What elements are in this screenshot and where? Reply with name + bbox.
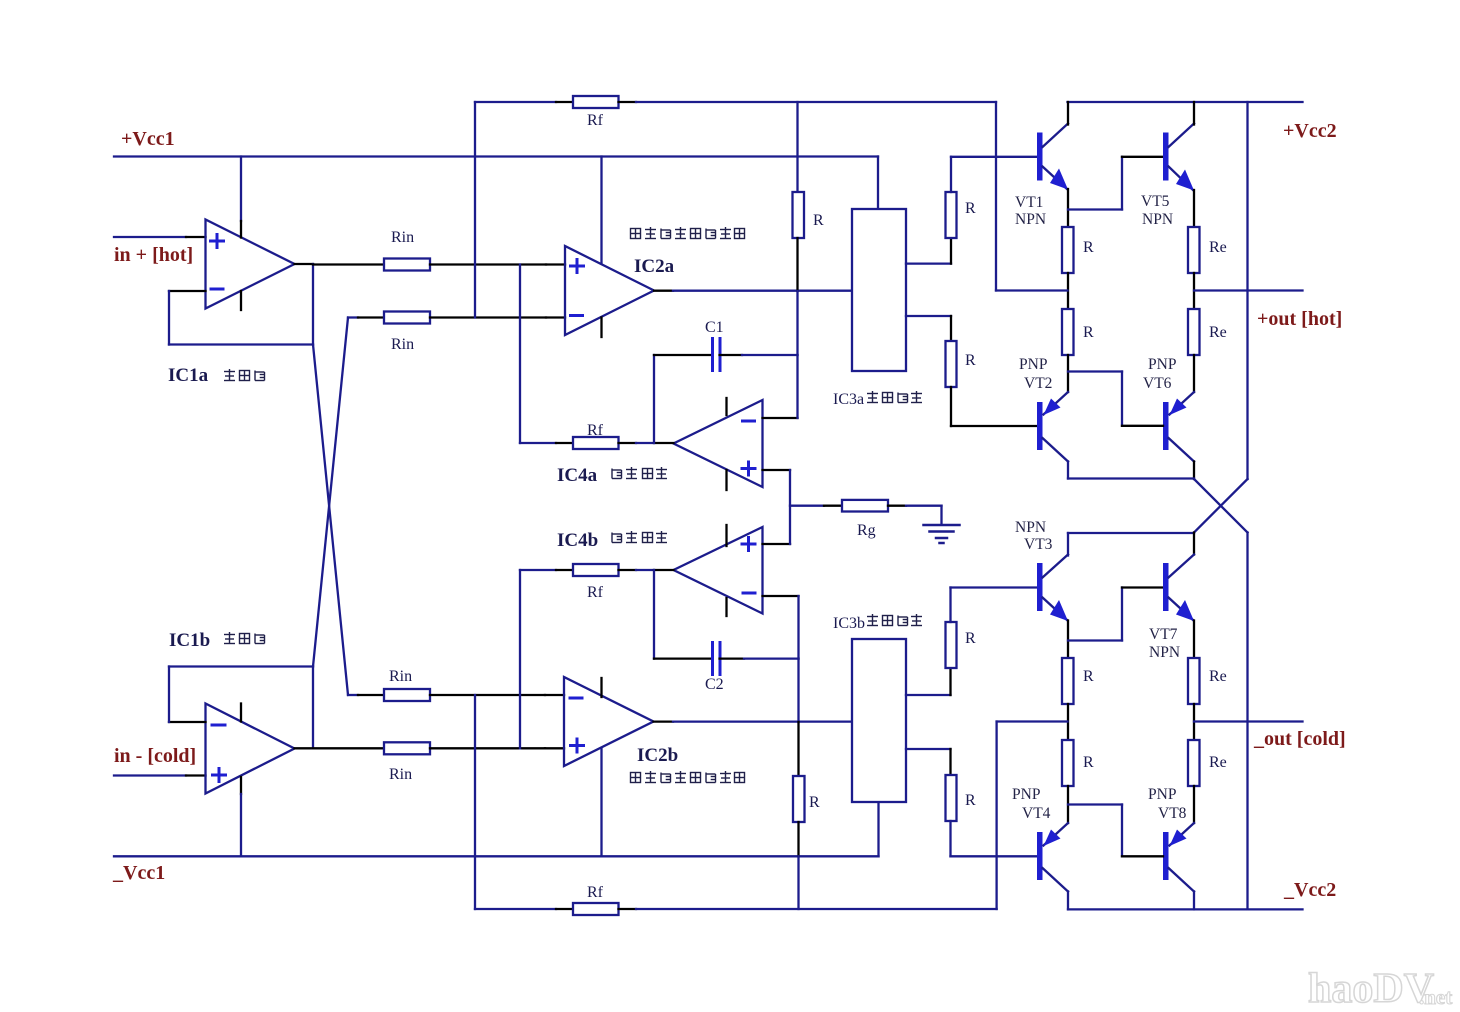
- svg-text:IC2b: IC2b: [637, 745, 678, 766]
- svg-text:VT1: VT1: [1015, 194, 1043, 211]
- svg-text:Re: Re: [1209, 754, 1227, 771]
- IC1a top power pin: [240, 157, 242, 222]
- label 偏置电压 (IC3b): [867, 614, 922, 626]
- label 缓冲器 (IC1a): [224, 369, 265, 381]
- svg-text:VT4: VT4: [1022, 805, 1051, 822]
- IC1b top power stub: [240, 704, 242, 722]
- svg-text:.net: .net: [1419, 985, 1452, 1009]
- svg-text:Rin: Rin: [389, 668, 412, 685]
- svg-text:Re: Re: [1209, 668, 1227, 685]
- svg-text:in + [hot]: in + [hot]: [114, 244, 193, 266]
- svg-text:_Vcc1: _Vcc1: [112, 862, 165, 884]
- svg-text:NPN: NPN: [1149, 644, 1180, 661]
- svg-text:PNP: PNP: [1012, 786, 1040, 803]
- _out drive tap: [997, 720, 1068, 722]
- svg-text:VT2: VT2: [1024, 375, 1052, 392]
- svg-text:R: R: [1083, 754, 1094, 771]
- svg-text:IC3b: IC3b: [833, 615, 865, 632]
- wire IC4b out to IC2b +in: [519, 570, 521, 748]
- wire IC4 +in join: [789, 470, 791, 544]
- ground: [940, 506, 942, 524]
- svg-text:C2: C2: [705, 676, 724, 693]
- IC2b top power stub: [600, 678, 602, 697]
- op-amp IC1a: [206, 220, 295, 309]
- +out line: [1194, 289, 1303, 291]
- svg-text:PNP: PNP: [1148, 786, 1176, 803]
- wire top Rf right drop: [995, 102, 997, 291]
- svg-text:R: R: [809, 794, 820, 811]
- _out line: [1194, 720, 1303, 722]
- svg-text:Rf: Rf: [587, 884, 604, 901]
- svg-text:VT5: VT5: [1141, 193, 1170, 210]
- wire in+: [114, 236, 186, 238]
- IC1b output wire: [295, 747, 314, 749]
- IC4a +in wire: [763, 469, 791, 471]
- capacitor C2 left wire: [653, 570, 655, 659]
- _Vcc2 rail: [1068, 908, 1303, 910]
- svg-text:R: R: [965, 630, 976, 647]
- op-amp IC1b: [206, 704, 295, 794]
- IC4a bottom power stub: [725, 470, 727, 490]
- VT1-VT5 link wire: [1068, 208, 1122, 210]
- svg-text:Rg: Rg: [857, 522, 876, 539]
- svg-text:+Vcc1: +Vcc1: [121, 128, 175, 150]
- IC4a top power stub: [725, 398, 727, 415]
- IC2b output wire: [654, 720, 674, 722]
- label 直流伺服 (IC4a): [612, 467, 667, 479]
- svg-text:Rf: Rf: [587, 112, 604, 129]
- svg-text:R: R: [965, 200, 976, 217]
- wire top Rf left drop to IC2a -in: [474, 102, 476, 318]
- IC1a bottom power stub: [240, 291, 242, 310]
- svg-text:R: R: [813, 212, 824, 229]
- svg-text:Re: Re: [1209, 324, 1227, 341]
- svg-text:R: R: [1083, 239, 1094, 256]
- svg-text:IC4a: IC4a: [557, 465, 598, 486]
- svg-text:IC3a: IC3a: [833, 391, 864, 408]
- IC4b +in wire: [763, 543, 791, 545]
- IC1b -in pin wire: [169, 721, 206, 723]
- resistor R (IC3a lower): [946, 341, 957, 387]
- resistor R (IC3a upper): [946, 192, 957, 238]
- +Vcc1 rail: [114, 155, 878, 157]
- IC2b bottom power pin: [600, 748, 602, 856]
- IC1b feedback loop wire: [168, 667, 170, 723]
- IC4b top power stub: [725, 525, 727, 546]
- IC1b bottom power pin: [240, 777, 242, 794]
- svg-text:PNP: PNP: [1019, 356, 1047, 373]
- svg-text:IC1b: IC1b: [169, 630, 210, 651]
- svg-text:C1: C1: [705, 319, 724, 336]
- svg-text:NPN: NPN: [1015, 519, 1046, 536]
- svg-text:NPN: NPN: [1142, 211, 1173, 228]
- IC3b right pin upper: [906, 694, 951, 696]
- IC4a output wire: [654, 442, 674, 444]
- VT2-VT6 link wire: [1068, 370, 1122, 372]
- svg-text:VT8: VT8: [1158, 805, 1187, 822]
- svg-text:+Vcc2: +Vcc2: [1283, 120, 1337, 142]
- IC2a bottom power stub: [600, 318, 602, 338]
- capacitor C1: [711, 339, 714, 371]
- label 低噪声电压放大器 (IC2a): [631, 227, 745, 239]
- cross wire IC1b out to upper path: [313, 318, 348, 667]
- svg-text:VT7: VT7: [1149, 626, 1178, 643]
- svg-text:Rf: Rf: [587, 584, 604, 601]
- capacitor C2: [711, 643, 714, 675]
- IC4b -in wire: [763, 595, 799, 597]
- svg-text:Rin: Rin: [389, 766, 412, 783]
- IC3a right pin upper: [906, 262, 951, 264]
- watermark haoDV.net: [1308, 966, 1452, 1012]
- svg-text:Re: Re: [1209, 239, 1227, 256]
- IC4b bottom power stub: [725, 598, 727, 616]
- label 直流伺服 (IC4b): [612, 531, 667, 543]
- label 低噪声电压放大器 (IC2b): [631, 771, 745, 783]
- svg-text:Rin: Rin: [391, 229, 414, 246]
- svg-text:R: R: [965, 352, 976, 369]
- wire bottom Rf left rise to IC2b -in: [474, 695, 476, 909]
- svg-text:IC2a: IC2a: [634, 256, 675, 277]
- capacitor C1 right wire: [720, 354, 743, 356]
- svg-text:R: R: [1083, 668, 1094, 685]
- +Vcc2 rail: [1068, 101, 1303, 103]
- IC2a top power pin: [600, 157, 602, 264]
- +Vcc1 feed into IC3a: [877, 157, 879, 210]
- capacitor C1 left wire: [653, 355, 655, 443]
- +out drive tap: [996, 289, 1068, 291]
- svg-text:_out [cold]: _out [cold]: [1253, 728, 1346, 750]
- svg-text:Rf: Rf: [587, 422, 604, 439]
- wire IC4a out to IC2a +in: [519, 265, 521, 444]
- resistor Rg: [790, 505, 824, 507]
- VT4-VT8 link wire: [1068, 803, 1122, 805]
- IC4a -in wire: [763, 417, 798, 419]
- _Vcc1 rail: [114, 855, 879, 857]
- IC4b output wire: [654, 569, 674, 571]
- wire bottom Rf right rise: [995, 722, 997, 910]
- resistor R (IC3b upper): [946, 622, 957, 668]
- svg-text:_Vcc2: _Vcc2: [1283, 879, 1336, 901]
- svg-text:+out [hot]: +out [hot]: [1257, 308, 1342, 330]
- IC1a output wire: [295, 263, 314, 265]
- collector join (bottom): [1068, 532, 1194, 534]
- svg-text:Rin: Rin: [391, 336, 414, 353]
- resistor Rf (IC4a): [520, 442, 556, 444]
- wire in-: [114, 774, 186, 776]
- label 缓冲器 (IC1b): [224, 632, 265, 644]
- resistor R (IC3b lower): [946, 775, 957, 821]
- resistor Rf (IC4b): [520, 569, 556, 571]
- IC3a right pin lower: [906, 315, 951, 317]
- svg-text:in - [cold]: in - [cold]: [114, 745, 196, 767]
- svg-text:haoDV: haoDV: [1308, 966, 1434, 1012]
- IC3b right pin lower: [906, 748, 951, 750]
- svg-text:IC4b: IC4b: [557, 530, 598, 551]
- IC2a output wire: [654, 290, 673, 292]
- svg-text:R: R: [965, 792, 976, 809]
- capacitor C2 right wire: [720, 657, 745, 659]
- svg-text:IC1a: IC1a: [168, 365, 209, 386]
- VT3-VT7 link wire: [1068, 639, 1122, 641]
- svg-text:R: R: [1083, 324, 1094, 341]
- svg-text:VT6: VT6: [1143, 375, 1172, 392]
- _Vcc1 feed from IC3b: [877, 802, 879, 856]
- IC1a -in pin wire: [169, 290, 206, 292]
- svg-text:NPN: NPN: [1015, 211, 1046, 228]
- svg-text:VT3: VT3: [1024, 536, 1053, 553]
- svg-text:PNP: PNP: [1148, 356, 1176, 373]
- label 偏置电压 (IC3a): [867, 391, 922, 403]
- IC1a feedback loop wire: [168, 291, 170, 345]
- cross wire IC1a out to lower path: [313, 345, 348, 696]
